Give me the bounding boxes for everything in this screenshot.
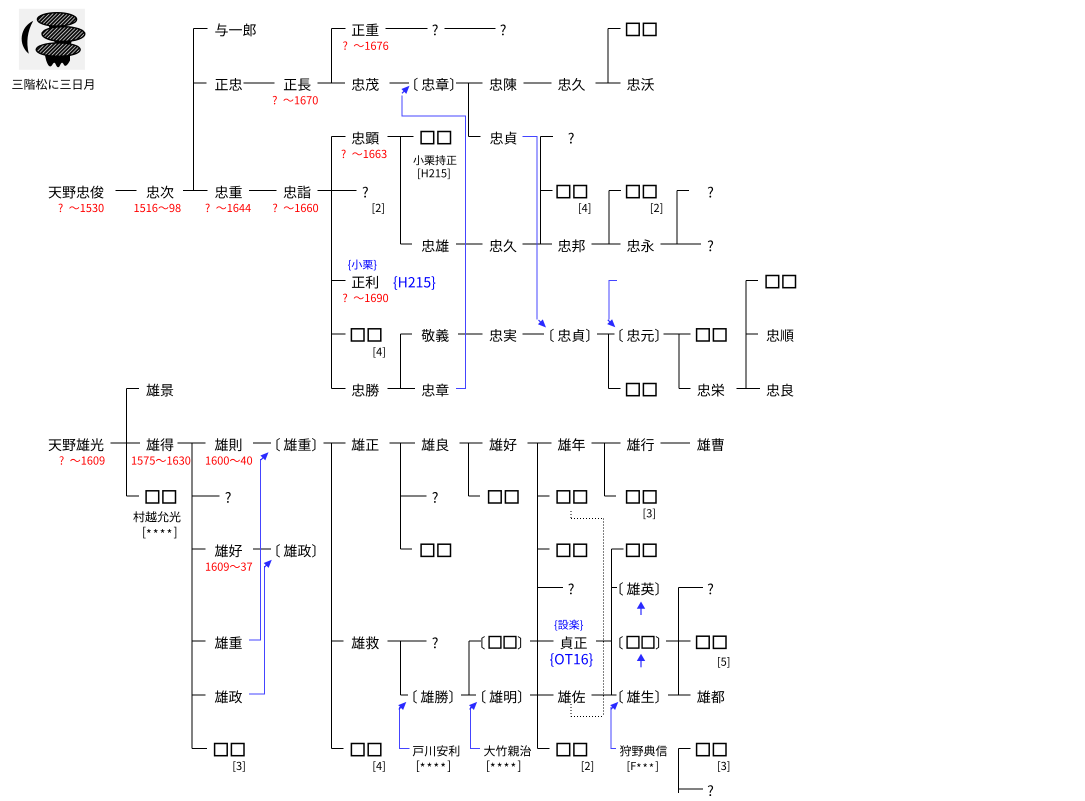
note [2]	[373, 203, 384, 214]
wire 忠栄 to 忠良	[737, 388, 760, 390]
note [3] c2	[233, 761, 244, 772]
drop line c4-5	[399, 443, 401, 549]
person 正重	[352, 24, 379, 36]
person 忠良	[767, 384, 794, 397]
person 口口 (child of 忠栄)	[766, 276, 795, 288]
wire ? to ?	[445, 27, 496, 29]
dotted link bottom	[570, 704, 572, 717]
stub to ? c7	[537, 586, 563, 588]
wire 忠詣 to ?	[317, 190, 356, 192]
child line of 忠次	[192, 28, 194, 190]
ref {OT16}	[550, 653, 593, 666]
stub to 雄景	[127, 388, 140, 390]
dates of 忠次	[134, 204, 180, 212]
person 〔雄重〕 adopted	[277, 438, 316, 451]
person 貞正	[560, 636, 586, 649]
stub to 口口 c6	[468, 495, 480, 497]
stub to 雄重2	[192, 640, 206, 642]
person 〔雄英〕 adopted	[620, 582, 659, 595]
person 狩野典信	[620, 745, 667, 756]
dotted link top	[570, 511, 572, 518]
person 忠久	[558, 78, 585, 91]
wire 雄好 to 雄年	[528, 442, 552, 444]
person 口口 (child of 雄正 row551)	[421, 544, 450, 556]
child line of 忠邦	[608, 191, 610, 245]
stub to 口口 c8 row497	[604, 495, 616, 497]
person 忠永	[627, 239, 654, 252]
stub to 忠順	[746, 333, 758, 335]
person 忠貞	[490, 132, 517, 145]
adoption arrow into 〔雄生〕	[610, 702, 618, 710]
person ? (child of 雄救)	[432, 637, 437, 648]
dates of 正重	[343, 41, 388, 50]
person 忠茂	[352, 78, 379, 91]
dates of 忠顕	[341, 150, 386, 159]
child line of 雄救	[399, 641, 401, 695]
child line of 雄正	[331, 443, 333, 748]
person 口口 (child of 雄年)	[627, 491, 656, 503]
wire 正長 to 忠茂	[317, 82, 345, 84]
adoption line 雄重 to 〔雄重〕	[249, 459, 261, 640]
person 雄救	[352, 636, 379, 649]
person 口口 (child of 忠邦)	[627, 186, 656, 198]
note [F***]	[628, 761, 658, 772]
person ? (child of 忠貞)	[568, 133, 573, 144]
stub to 雄勝	[400, 694, 408, 696]
person 口口 (村越允光 wife)	[146, 491, 175, 503]
person 口口 (child of 忠詣 4th)	[351, 329, 380, 341]
wire 雄救 to ?	[388, 640, 427, 642]
person 忠順	[767, 329, 794, 342]
stub to ? c9	[677, 190, 689, 192]
drop line to 忠貞	[468, 83, 470, 137]
person 〔雄明〕 adopted	[482, 690, 521, 703]
child line of 口口(643)	[678, 587, 680, 695]
adoption arrow into 〔雄英〕	[637, 602, 645, 616]
wire 忠邦 to 忠永	[592, 243, 621, 245]
stub to 口口 c7 row497	[537, 495, 549, 497]
person 雄政 (younger)	[215, 690, 242, 703]
person 忠邦	[558, 239, 585, 252]
stub to ? c9 row589	[679, 586, 703, 588]
note [4] c4 row750	[373, 761, 384, 772]
person ? (son of 正重)	[432, 25, 437, 36]
person 〔忠元〕 adopted	[620, 329, 659, 342]
stub to 口口 c8	[609, 190, 621, 192]
adoption line 戸川安利 to 〔雄勝〕	[400, 707, 410, 748]
wire 忠永 to ?	[661, 243, 701, 245]
person 忠勝	[352, 384, 379, 397]
person 忠陳	[490, 78, 517, 91]
crest caption 三階松に三日月	[12, 79, 93, 90]
person 口口 (child row643 c9)	[697, 636, 726, 648]
child line of 忠顕	[399, 137, 401, 245]
dates of 雄則	[206, 456, 252, 464]
stub to 忠勝	[332, 388, 346, 390]
person 雄好	[489, 438, 516, 451]
stub to ? c5	[400, 495, 426, 497]
person 天野雄光 root	[49, 438, 104, 451]
wire 忠章 to 忠陳	[456, 82, 483, 84]
dates of 天野忠俊	[58, 204, 103, 213]
note 小栗持正	[413, 155, 456, 165]
stub to ?	[541, 136, 554, 138]
stub to 口口 c4	[332, 333, 346, 335]
person 忠栄	[697, 384, 724, 397]
person ? (2nd child of 忠永)	[708, 240, 713, 251]
person 口口 (child of 雄好 row497)	[557, 491, 586, 503]
drop line c7-8	[603, 443, 605, 496]
person 忠次	[147, 186, 174, 199]
dates of 天野雄光	[59, 456, 104, 465]
dotted link main	[602, 518, 604, 716]
person 雄曹	[697, 438, 724, 451]
wire 雄年 to 雄行	[592, 442, 621, 444]
note [H215]	[418, 169, 449, 180]
stub to 雄救	[332, 640, 344, 642]
ref {H215}	[393, 276, 435, 289]
person 雄則	[215, 438, 242, 451]
stub to 忠顕	[332, 136, 346, 138]
person 忠実	[490, 329, 517, 342]
person 口口 (child of 忠久)	[627, 23, 656, 35]
wire 雄佐 to 雄生	[592, 694, 617, 696]
stub to 忠雄	[400, 243, 412, 245]
stub to squares	[608, 27, 620, 29]
person 雄景	[146, 384, 173, 397]
person 口口 (小栗持正)	[421, 132, 450, 144]
wire 雄行 to 雄曹	[661, 442, 690, 444]
person 忠重	[215, 186, 242, 199]
person 〔口口〕 (child of 雄勝)	[481, 636, 521, 649]
stub to 口口 c7 row750	[537, 748, 549, 750]
person 正長	[284, 79, 311, 91]
person 〔忠貞〕 adopted	[550, 329, 589, 342]
wire 正忠 to 正長	[244, 82, 275, 84]
person 与一郎	[215, 23, 256, 36]
note [3] c9 row750	[718, 761, 729, 772]
person 口口 (wife of 忠元)	[697, 329, 726, 341]
stub to 雄英	[612, 586, 617, 588]
child line of 忠元	[607, 334, 609, 389]
dates of 忠詣	[273, 204, 318, 213]
person 雄良	[422, 438, 449, 451]
child line of 貞正	[611, 549, 613, 695]
person 正忠	[215, 78, 242, 91]
note 村越允光	[133, 511, 180, 522]
person 口口 (child of 雄好 row551)	[557, 544, 586, 556]
family crest: three-tiered pine with crescent moon	[19, 9, 85, 70]
person 雄行	[627, 438, 654, 451]
wire 雄良 to 雄好	[459, 442, 482, 444]
stub to 雄政2	[192, 694, 206, 696]
person 正利	[352, 276, 378, 289]
stub to 正重	[332, 27, 346, 29]
wire to 貞正	[530, 640, 554, 642]
adoption arrow into 〔雄明〕	[469, 702, 477, 710]
wire 忠実 to 忠貞	[523, 333, 545, 335]
stub to 口口 c8 row390	[608, 388, 620, 390]
person ? (child of 雄生 row790)	[708, 785, 713, 796]
wire 雄生 to 雄都	[668, 694, 691, 696]
stub to 与一郎	[193, 27, 207, 29]
wire 雄則 to 雄重	[253, 442, 271, 444]
adoption arrow into 〔忠章〕	[401, 86, 409, 94]
child line of 忠詣	[331, 137, 333, 389]
wire 忠勝 to 忠章	[387, 388, 414, 390]
wire 雄明 to 雄佐	[530, 694, 553, 696]
dates of 雄得	[132, 456, 190, 464]
person 忠顕	[352, 132, 379, 145]
person 雄正	[352, 438, 379, 451]
note 〔小栗〕	[348, 260, 377, 271]
adoption arrow into 〔忠元〕	[607, 319, 615, 327]
person 〔雄生〕 adopted	[620, 690, 659, 703]
person ? (child of 雄正)	[432, 492, 437, 503]
person 天野忠俊 root	[49, 186, 104, 199]
wire 雄重 to 雄正	[323, 442, 345, 444]
person 口口 (child of 雄得 row750)	[215, 744, 244, 756]
adoption line 大竹親治 to 〔雄明〕	[470, 707, 480, 748]
note {設楽}	[554, 620, 583, 631]
person 雄都	[697, 690, 724, 703]
wire 雄光 to 雄得	[111, 442, 141, 444]
dates of 雄好	[206, 562, 252, 570]
child line of 雄好	[536, 443, 538, 748]
stub to 正利	[332, 280, 346, 282]
drop line c9	[678, 334, 680, 389]
adoption line 狩野典信 to 〔雄生〕	[611, 707, 616, 748]
adoption line 雄政 to 〔雄政〕	[249, 566, 264, 694]
wire 忠陳 to 忠久	[524, 82, 552, 84]
person 雄重 (younger)	[215, 636, 242, 649]
adoption arrow into 〔雄政〕	[264, 560, 272, 568]
person 口口 (child of 忠貞)	[557, 186, 586, 198]
person 戸川安利	[413, 745, 460, 756]
dates of 正長	[273, 96, 318, 105]
adoption line 忠章 to 〔忠章〕	[402, 96, 465, 389]
stub to 口口 c8 row551	[612, 548, 624, 550]
person 忠詣	[284, 186, 311, 199]
stub to 正忠	[193, 82, 206, 84]
stub to 口口 c1	[127, 495, 140, 497]
stub to 忠栄	[679, 388, 691, 390]
adoption line 忠貞 to 〔忠貞〕	[523, 137, 537, 320]
person 〔雄勝〕 adopted	[414, 690, 453, 703]
adoption arrow into 〔雄重〕	[260, 452, 268, 460]
child line of 忠久(row85)	[607, 28, 609, 83]
stub to 口口 c4 row750	[332, 748, 344, 750]
person 雄好 (younger)	[215, 544, 242, 557]
adoption line into 〔忠元〕	[609, 280, 617, 319]
stub to ? c9 row790	[679, 788, 703, 790]
person 雄年	[558, 438, 585, 451]
stub to 口口 c10	[746, 280, 758, 282]
wire 忠貞 to 忠元	[597, 333, 614, 335]
person 大竹親治	[484, 745, 531, 756]
person 忠沃	[627, 78, 654, 91]
person 口口 (child of 貞正 row551)	[627, 544, 656, 556]
stub to 口口 c6 row643	[469, 640, 481, 642]
child line of 忠栄	[745, 281, 747, 389]
person 口口 (child of 雄良)	[489, 491, 518, 503]
stub to 忠貞	[469, 136, 481, 138]
stub to ? c2	[192, 495, 220, 497]
wire 忠雄 to 忠久	[456, 243, 482, 245]
person 雄佐	[558, 690, 585, 703]
wire 敬義 to 忠実	[458, 333, 482, 335]
wire 貞正 to 口口	[596, 640, 611, 642]
stub to 雄好2	[192, 548, 206, 550]
person ? (child row589)	[708, 584, 713, 595]
wire 忠重 to 忠詣	[249, 190, 277, 192]
wire 忠久 to 忠邦	[523, 243, 552, 245]
wire 天野忠俊 to 忠次	[116, 190, 137, 192]
person 〔雄政〕 adopted	[277, 544, 316, 557]
adoption arrow into 〔忠貞〕	[538, 319, 546, 327]
person 口口 (child of 雄好 row750)	[557, 744, 586, 756]
person 忠章	[422, 384, 449, 397]
child line of 雄得	[191, 443, 193, 748]
wire 正重 to ?	[385, 27, 427, 29]
note [4] c4	[374, 347, 385, 358]
child line of 忠勝	[399, 334, 401, 389]
person 〔忠章〕 adopted	[414, 78, 453, 91]
wire 雄正 to 雄良	[389, 442, 415, 444]
child line of 正長	[331, 28, 333, 83]
wire 忠久 to 忠沃	[596, 82, 621, 84]
drop line 雄勝 kids	[468, 641, 470, 695]
wire 雄勝 to 雄明	[461, 694, 476, 696]
dates of 正利	[343, 294, 388, 303]
person 忠久 (younger)	[490, 239, 517, 252]
note [4]	[579, 203, 590, 214]
stub to 口口 c5 row551	[400, 548, 412, 550]
child line of 忠貞	[540, 137, 542, 245]
person 忠雄	[422, 239, 449, 252]
wire 口口 to 口口 c9	[666, 640, 690, 642]
child line of 雄光	[126, 389, 128, 496]
person ? (child of 忠永)	[708, 187, 713, 198]
person ? (grandson of 正重)	[500, 25, 505, 36]
person ? (child of 雄好 row589)	[568, 584, 573, 595]
drop line c5-6	[467, 443, 469, 496]
dotted link top h	[571, 517, 603, 519]
wire 忠次 to 忠重	[183, 190, 208, 192]
adoption arrow into 〔口口〕	[637, 654, 645, 668]
dates of 忠重	[205, 204, 250, 213]
stub to 敬義	[400, 333, 412, 335]
child line of 忠永	[676, 191, 678, 245]
wire 忠顕 to 口口	[388, 136, 414, 138]
stub to 口口 c7	[541, 190, 553, 192]
person ? (child of 忠詣)	[363, 187, 368, 198]
person 口口 (child of 雄生)	[697, 744, 726, 756]
wire 忠元 to 口口	[664, 333, 691, 335]
wire 雄好 to 雄政	[253, 548, 271, 550]
dotted link bottom h	[571, 716, 603, 718]
adoption arrow into 〔雄勝〕	[398, 702, 406, 710]
wire 忠茂 to 忠章	[389, 82, 409, 84]
person 〔口口〕 (child of 貞正)	[619, 636, 659, 649]
note [2] c7 row750	[582, 761, 593, 772]
person ? (child of 雄得)	[225, 492, 230, 503]
wire 雄得 to 雄則	[178, 442, 206, 444]
person 口口 (child of 忠元)	[627, 384, 656, 396]
person 敬義	[422, 329, 449, 342]
note [3] c8	[644, 509, 655, 520]
note [2] c8	[651, 203, 662, 214]
person 雄得	[146, 438, 173, 451]
person 口口 (child of 雄正 row750)	[351, 744, 380, 756]
stub to 口口 c7 row551	[537, 548, 549, 550]
stub to 口口 c9 row750	[679, 748, 691, 750]
stub to 口口 c2 row750	[192, 748, 207, 750]
child line of 雄生	[678, 749, 680, 794]
note [5]	[718, 657, 729, 668]
